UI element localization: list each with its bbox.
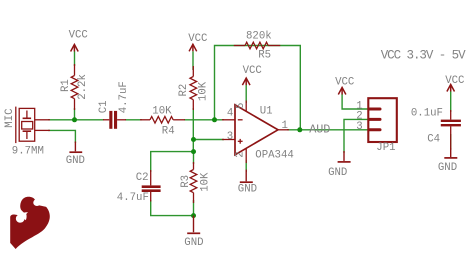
svg-text:R5: R5 (258, 49, 271, 61)
svg-text:JP1: JP1 (376, 142, 395, 154)
svg-text:5: 5 (235, 103, 247, 109)
svg-text:R3: R3 (180, 175, 192, 188)
svg-text:R2: R2 (178, 84, 190, 97)
svg-text:GND: GND (66, 155, 85, 167)
svg-text:1: 1 (282, 120, 288, 132)
svg-text:AUD: AUD (309, 122, 330, 136)
svg-text:10K: 10K (152, 106, 172, 118)
svg-text:C1: C1 (98, 100, 110, 113)
svg-text:10K: 10K (200, 172, 212, 192)
svg-text:2.2k: 2.2k (77, 74, 89, 100)
svg-text:OPA344: OPA344 (255, 149, 293, 161)
svg-text:R4: R4 (162, 125, 175, 137)
svg-text:3: 3 (356, 121, 362, 133)
svg-text:10K: 10K (198, 81, 210, 101)
svg-text:C4: C4 (427, 134, 440, 146)
svg-text:2: 2 (235, 151, 247, 157)
svg-text:820k: 820k (246, 31, 272, 43)
svg-text:GND: GND (328, 167, 347, 179)
svg-text:VCC: VCC (335, 77, 354, 89)
svg-text:VCC: VCC (243, 65, 262, 77)
svg-text:4.7uF: 4.7uF (117, 192, 149, 204)
svg-text:0.1uF: 0.1uF (411, 108, 443, 120)
svg-text:R1: R1 (60, 79, 72, 92)
svg-text:VCC: VCC (188, 33, 207, 45)
svg-text:3: 3 (227, 131, 233, 143)
svg-text:MIC: MIC (4, 108, 16, 127)
svg-text:VCC 3.3V - 5V: VCC 3.3V - 5V (381, 49, 466, 63)
svg-text:GND: GND (438, 162, 457, 174)
svg-text:GND: GND (238, 183, 257, 195)
svg-text:9.7MM: 9.7MM (12, 146, 44, 158)
svg-text:C2: C2 (136, 172, 149, 184)
svg-text:U1: U1 (260, 106, 273, 118)
svg-text:4.7uF: 4.7uF (118, 81, 130, 113)
svg-text:GND: GND (184, 237, 203, 249)
svg-text:4: 4 (227, 107, 233, 119)
svg-text:VCC: VCC (69, 30, 88, 42)
svg-text:VCC: VCC (445, 75, 464, 87)
